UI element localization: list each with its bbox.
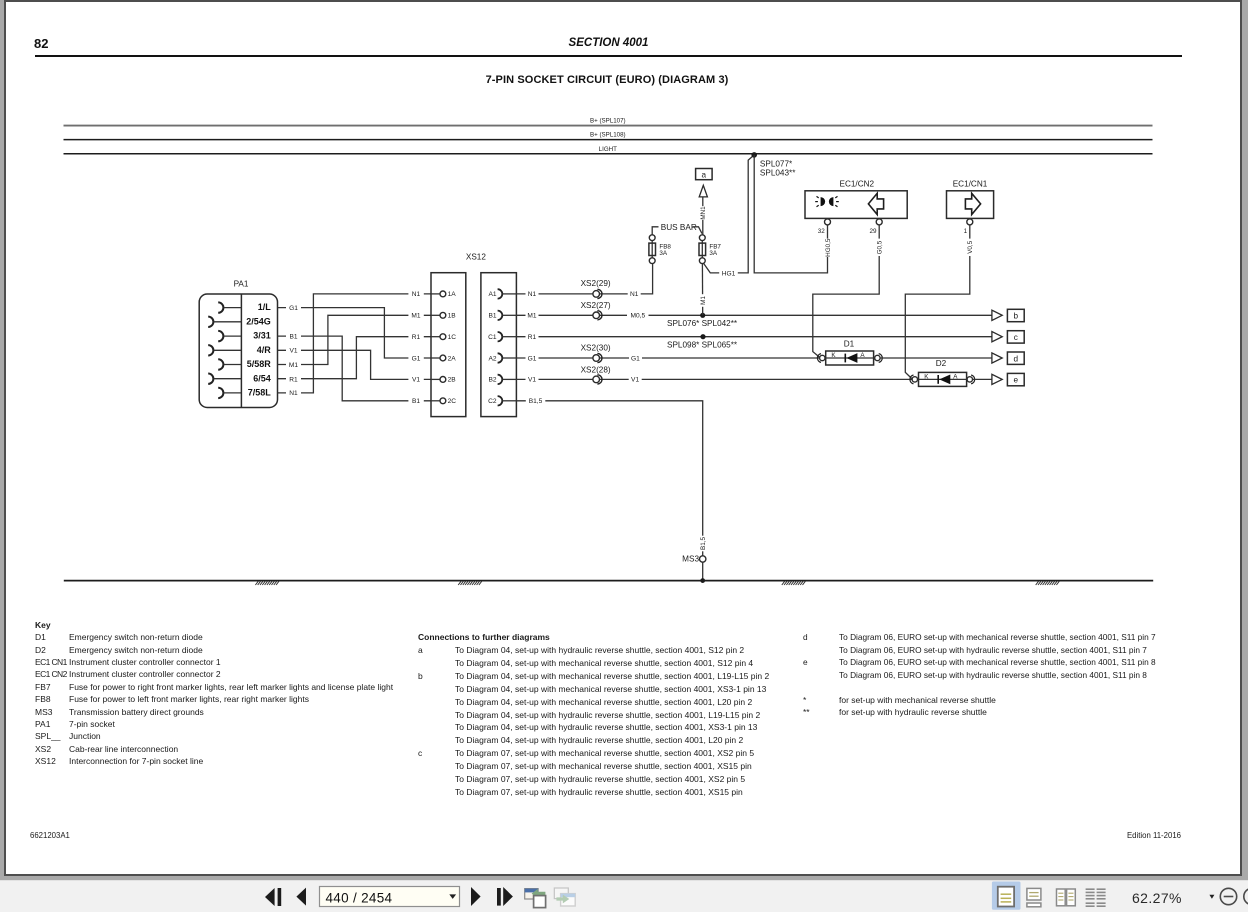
arrow to b — [992, 310, 1002, 320]
wire G1 PA1 to XS12 — [278, 303, 432, 363]
svg-text:R1: R1 — [289, 376, 298, 383]
svg-text:XS2(30): XS2(30) — [581, 343, 611, 352]
connector XS12 box 2 — [481, 273, 517, 417]
XS12 pin C2 — [488, 396, 516, 405]
svg-text:EC1/CN2: EC1/CN2 — [840, 180, 875, 189]
instrument cluster connector EC1/CN2 — [805, 180, 907, 219]
connections block column 2 — [803, 632, 1156, 642]
svg-text:N1: N1 — [528, 291, 537, 298]
wire V1 XS12 to diode D2 — [516, 375, 912, 385]
XS12 pin B1 — [489, 311, 517, 320]
wire G1 XS12 to diode D1 — [516, 353, 820, 363]
junction on ground line — [700, 578, 705, 583]
svg-text:7/58L: 7/58L — [248, 388, 272, 398]
footer edition — [1031, 831, 1181, 840]
XS12 pin 1C — [431, 334, 456, 341]
svg-text:4/R: 4/R — [257, 345, 272, 355]
svg-text:M1: M1 — [289, 362, 298, 369]
connection box b — [1007, 309, 1024, 321]
right arrow icon — [965, 193, 980, 214]
svg-text:HG0,5: HG0,5 — [825, 238, 832, 257]
svg-text:G1: G1 — [289, 305, 298, 312]
svg-text:C1: C1 — [488, 334, 497, 341]
svg-text:e: e — [1014, 376, 1019, 385]
bus bar label and leaders — [652, 223, 702, 235]
svg-text:2B: 2B — [448, 377, 457, 384]
ground hatch 2 — [458, 581, 482, 585]
svg-text:62.27%: 62.27% — [1132, 890, 1182, 906]
connector XS12 box 1 — [431, 273, 466, 417]
svg-text:B1,5: B1,5 — [529, 398, 543, 405]
svg-text:V1: V1 — [289, 348, 297, 355]
wire R1 XS12 to arrow c — [516, 332, 992, 342]
wire M1 FB7 to SPL076 junction — [699, 264, 707, 316]
svg-text:XS2(29): XS2(29) — [581, 279, 611, 288]
svg-text:G1: G1 — [412, 355, 421, 362]
PA1 pin 6/54 — [208, 373, 271, 384]
svg-text:SPL098* SPL065**: SPL098* SPL065** — [667, 341, 738, 350]
svg-text:2/54G: 2/54G — [246, 316, 271, 326]
svg-text:a: a — [702, 170, 707, 179]
svg-text:1/L: 1/L — [258, 302, 272, 312]
arrow to c — [992, 332, 1002, 342]
svg-text:EC1/CN1: EC1/CN1 — [953, 180, 988, 189]
svg-text:440 / 2454: 440 / 2454 — [326, 890, 393, 905]
svg-text:MS3: MS3 — [682, 555, 699, 564]
svg-text:2C: 2C — [448, 398, 457, 405]
XS12 pin 2A — [431, 355, 456, 362]
zoom in button (clipped) — [1244, 888, 1248, 904]
svg-text:V0,5: V0,5 — [967, 240, 974, 253]
footer document number — [30, 831, 70, 840]
wire MS3 to ground — [702, 562, 704, 580]
fuse FB7 3A — [699, 235, 721, 264]
XS12 pin 1A — [431, 291, 456, 298]
wire N1 PA1 to XS12 — [278, 289, 432, 398]
zoom dropdown caret — [1209, 895, 1214, 899]
PA1 pin 4/R — [208, 345, 271, 356]
svg-text:XS2(28): XS2(28) — [581, 366, 611, 375]
zoom out button — [1220, 888, 1236, 904]
wire HG1 FB7 to junction SPL077 — [704, 155, 755, 278]
fuse FB8 3A — [649, 235, 672, 264]
PA1 pin 3/31 — [218, 331, 271, 342]
svg-text:M1: M1 — [700, 296, 707, 305]
svg-text:B1: B1 — [489, 313, 497, 320]
svg-text:B2: B2 — [489, 377, 497, 384]
wire V1 PA1 to XS12 — [278, 346, 432, 385]
wire bus LIGHT — [64, 153, 1153, 155]
svg-text:BUS BAR: BUS BAR — [661, 223, 697, 232]
svg-text:SPL076* SPL042**: SPL076* SPL042** — [667, 319, 738, 328]
svg-text:3A: 3A — [709, 250, 718, 257]
connector XS2(29) — [581, 279, 611, 298]
diagram title — [0, 74, 1214, 86]
EC1/CN2 pin 32 — [818, 219, 831, 235]
svg-text:d: d — [1014, 354, 1019, 363]
ground connector MS3 — [682, 555, 706, 564]
XS12 pin 2C — [431, 398, 456, 405]
svg-text:2A: 2A — [448, 355, 457, 362]
XS12 pin B2 — [489, 375, 517, 384]
svg-text:B1: B1 — [412, 398, 420, 405]
ground hatch 3 — [782, 581, 806, 585]
wire HG0,5 junction SPL077 to EC1/CN2 pin 32 — [754, 155, 832, 273]
wire B1 PA1 to XS12 — [278, 331, 432, 405]
connector XS2(27) — [581, 301, 611, 320]
XS12 pin 2B — [431, 377, 456, 384]
wire MN1 — [699, 197, 708, 235]
svg-text:5/58R: 5/58R — [247, 359, 272, 369]
svg-text:6/54: 6/54 — [253, 373, 271, 383]
wire bus B+ (SPL107) — [64, 125, 1153, 127]
EC1/CN1 pin 1 — [964, 219, 973, 235]
junction SPL098* SPL065** — [667, 334, 738, 350]
wire R1 PA1 to XS12 — [278, 332, 432, 384]
svg-text:1A: 1A — [448, 291, 457, 298]
last page button — [497, 887, 513, 906]
svg-text:1C: 1C — [448, 334, 457, 341]
svg-text:N1: N1 — [289, 390, 298, 397]
svg-text:XS12: XS12 — [466, 253, 486, 262]
PA1 pin 2/54G — [208, 316, 271, 327]
svg-text:XS2(27): XS2(27) — [581, 301, 611, 310]
XS12 pin A2 — [489, 353, 517, 362]
svg-text:B+ (SPL107): B+ (SPL107) — [590, 118, 626, 125]
previous page button — [296, 888, 306, 906]
connection box e — [1007, 373, 1024, 385]
svg-text:B1: B1 — [289, 333, 297, 340]
page number 82 — [34, 36, 48, 51]
wire bus B+ (SPL108) — [64, 139, 1153, 141]
connection box a — [696, 169, 713, 180]
svg-text:29: 29 — [869, 228, 877, 235]
svg-text:G1: G1 — [631, 355, 640, 362]
XS12 pin C1 — [488, 332, 516, 341]
svg-text:V1: V1 — [412, 377, 420, 384]
XS12 pin A1 — [489, 289, 517, 298]
junction SPL077* SPL043** — [751, 152, 796, 177]
svg-text:B1,5: B1,5 — [700, 537, 707, 550]
ground hatch 4 — [1036, 581, 1060, 585]
ground line — [64, 580, 1153, 582]
svg-text:SPL077*: SPL077* — [760, 160, 793, 169]
arrow to e — [992, 374, 1002, 384]
7-pin socket PA1 — [199, 279, 277, 407]
wire M0,5 XS12 to arrow b — [516, 311, 992, 321]
svg-text:32: 32 — [818, 228, 826, 235]
wire diode D2 to arrow e — [973, 378, 992, 380]
first page button — [265, 888, 281, 906]
svg-text:PA1: PA1 — [234, 279, 249, 288]
svg-text:c: c — [1014, 333, 1018, 342]
svg-text:3A: 3A — [659, 250, 668, 257]
header rule — [35, 55, 1182, 57]
connector XS2(30) — [581, 343, 611, 362]
header SECTION 4001 — [0, 37, 1217, 49]
svg-text:G1: G1 — [528, 355, 537, 362]
svg-text:M0,5: M0,5 — [630, 313, 645, 320]
svg-text:D1: D1 — [844, 339, 855, 348]
arrow to a — [699, 185, 707, 197]
svg-text:V1: V1 — [528, 377, 536, 384]
svg-text:MN1: MN1 — [700, 206, 707, 220]
wire V0,5 EC1/CN1 pin 1 to diode D2 — [905, 225, 974, 380]
svg-text:1: 1 — [964, 228, 968, 235]
svg-text:HG1: HG1 — [722, 271, 736, 278]
continuous layout button — [1027, 888, 1041, 906]
svg-text:b: b — [1014, 312, 1019, 321]
ground hatch 1 — [255, 581, 279, 585]
svg-text:M1: M1 — [527, 313, 536, 320]
svg-text:G0,5: G0,5 — [877, 240, 884, 254]
svg-text:M1: M1 — [411, 313, 420, 320]
PDF viewer toolbar — [0, 876, 1248, 912]
page number box — [320, 887, 460, 907]
svg-text:SPL043**: SPL043** — [760, 168, 796, 177]
diode D1 — [817, 339, 882, 365]
next page button — [471, 887, 481, 906]
PA1 pin 1/L — [218, 302, 271, 313]
two page continuous layout button — [1086, 889, 1106, 906]
svg-text:R1: R1 — [528, 334, 537, 341]
connection box c — [1007, 331, 1024, 343]
svg-text:LIGHT: LIGHT — [599, 146, 617, 153]
wire diode D1 to arrow d — [880, 357, 992, 359]
junction SPL076* SPL042** — [667, 313, 738, 328]
instrument cluster connector EC1/CN1 — [947, 180, 994, 219]
PA1 pin 7/58L — [218, 388, 271, 399]
previous view button — [525, 889, 546, 908]
PA1 pin 5/58R — [218, 359, 271, 370]
svg-text:R1: R1 — [412, 334, 421, 341]
svg-text:N1: N1 — [412, 291, 421, 298]
next view button (disabled) — [554, 888, 575, 906]
left arrow icon — [868, 193, 883, 214]
svg-text:V1: V1 — [631, 377, 639, 384]
EC1/CN2 pin 29 — [869, 219, 882, 235]
XS12 pin 1B — [431, 312, 456, 319]
svg-text:N1: N1 — [630, 291, 639, 298]
svg-text:A2: A2 — [489, 355, 497, 362]
marker lights icon — [815, 196, 839, 206]
wire G0,5 EC1/CN2 pin 29 to diode D1 — [813, 225, 884, 358]
svg-text:1B: 1B — [448, 313, 457, 320]
svg-text:C2: C2 — [488, 398, 497, 405]
svg-text:A1: A1 — [489, 291, 497, 298]
diode D2 — [910, 359, 975, 387]
arrow to d — [992, 353, 1002, 363]
two page layout button — [1057, 889, 1076, 906]
wire B1,5 XS12 to MS3 — [516, 396, 707, 556]
svg-text:D2: D2 — [936, 359, 947, 368]
connector XS2(28) — [581, 366, 611, 385]
connections block column 1 — [418, 632, 550, 642]
svg-text:B+ (SPL108): B+ (SPL108) — [590, 132, 626, 139]
svg-text:3/31: 3/31 — [253, 331, 271, 341]
key block — [35, 620, 51, 630]
wire N1 XS12 to fuse FB8 — [516, 264, 652, 299]
connection box d — [1007, 352, 1024, 364]
wire M1 PA1 to XS12 — [278, 311, 432, 370]
single page layout button (active) — [992, 882, 1021, 910]
